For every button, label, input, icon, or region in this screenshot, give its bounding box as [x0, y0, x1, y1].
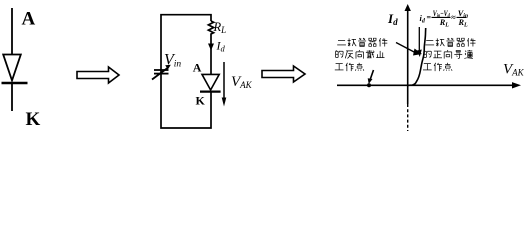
svg-text:K: K	[196, 94, 206, 108]
svg-text:=: =	[427, 13, 432, 22]
svg-text:K: K	[26, 109, 41, 130]
svg-text:≈: ≈	[451, 13, 456, 22]
svg-text:A: A	[22, 9, 36, 30]
svg-text:A: A	[193, 61, 202, 75]
